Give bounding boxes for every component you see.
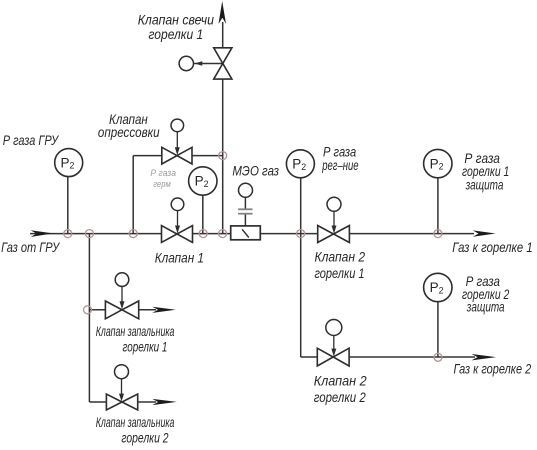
- svg-text:Р газа: Р газа: [150, 168, 176, 178]
- svg-text:горелки 1: горелки 1: [123, 338, 168, 354]
- svg-text:Клапан запальника: Клапан запальника: [96, 323, 175, 339]
- svg-text:Р газа ГРУ: Р газа ГРУ: [3, 132, 60, 148]
- svg-text:горелки 2: горелки 2: [121, 429, 168, 445]
- svg-text:опрессовки: опрессовки: [98, 124, 160, 140]
- svg-text:Газ от ГРУ: Газ от ГРУ: [1, 239, 61, 255]
- svg-text:Клапан 1: Клапан 1: [155, 250, 204, 266]
- svg-text:Клапан 2: Клапан 2: [315, 249, 366, 265]
- svg-text:защита: защита: [465, 177, 504, 193]
- svg-text:Газ к горелке 1: Газ к горелке 1: [452, 239, 532, 255]
- svg-text:МЭО газ: МЭО газ: [232, 162, 279, 178]
- svg-text:горелки 1: горелки 1: [315, 265, 365, 281]
- svg-text:защита: защита: [466, 298, 505, 314]
- svg-text:герм: герм: [153, 179, 171, 189]
- svg-text:Клапан запальника: Клапан запальника: [96, 414, 175, 430]
- svg-text:Клапан 2: Клапан 2: [314, 372, 367, 388]
- svg-text:рег–ние: рег–ние: [322, 157, 359, 173]
- svg-text:горелки 1: горелки 1: [149, 26, 204, 42]
- svg-text:горелки 2: горелки 2: [314, 389, 366, 405]
- svg-text:Газ к горелке 2: Газ к горелке 2: [454, 360, 532, 376]
